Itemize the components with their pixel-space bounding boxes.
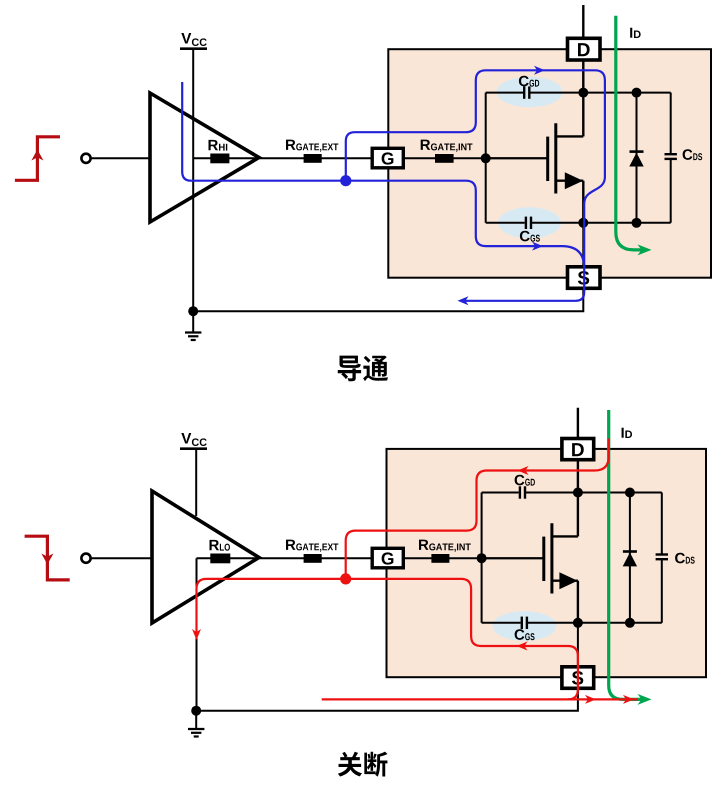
Vcc rail bar bbox=[180, 47, 207, 50]
Vcc label (bottom) bbox=[181, 433, 206, 446]
capacitor CGS plates (bottom) bbox=[521, 617, 523, 629]
capacitor CDS (top) bbox=[670, 93, 672, 155]
resistor RGATE,EXT (bottom) bbox=[286, 540, 338, 552]
S terminal box (top) bbox=[568, 267, 601, 289]
red flow arrow on bottom return bbox=[585, 695, 596, 704]
Cgs highlight ellipse (bottom) bbox=[492, 611, 556, 641]
ground node (top) bbox=[188, 306, 198, 316]
red discharge path via CGS (bottom) bbox=[346, 579, 578, 700]
capacitor CGD plates bbox=[523, 86, 525, 98]
red flow arrow near green (bottom) bbox=[623, 695, 634, 704]
node: drain junction (bottom) bbox=[573, 488, 583, 498]
wire input to driver bbox=[91, 157, 150, 159]
Vcc rail bar (bottom) bbox=[180, 447, 207, 450]
CDS label (bottom) bbox=[675, 553, 695, 564]
capacitor CGS plates bbox=[525, 217, 527, 229]
blue gate-charge path: driver to split node bbox=[182, 82, 346, 181]
pull-down wire to ground (bottom) bbox=[196, 558, 198, 711]
source bus to right branch (bottom) bbox=[578, 622, 662, 624]
MOSFET Q2 gate bar bbox=[542, 537, 545, 581]
source bus to right branch (top) bbox=[583, 222, 670, 224]
red path to RLO/ground (bottom) bbox=[197, 579, 346, 634]
body diode (bottom) bbox=[629, 493, 631, 623]
CGS label bbox=[520, 231, 540, 242]
resistor RHI bbox=[209, 140, 228, 151]
D lead wire (bottom) bbox=[577, 408, 579, 493]
resistor RGATE,EXT bbox=[286, 140, 338, 152]
CGD label bbox=[519, 76, 539, 87]
MOSFET Q1 channel bar bbox=[554, 123, 557, 193]
blue path via CGD (top) bbox=[346, 70, 605, 300]
blue path via CGS (top) bbox=[346, 181, 584, 268]
ground symbol (top) bbox=[192, 311, 194, 332]
MOSFET package box (bottom) bbox=[387, 449, 707, 677]
input step-down signal bbox=[25, 536, 70, 580]
MOSFET Q1 drain stub bbox=[556, 135, 584, 137]
drain bus to right branch (top) bbox=[583, 92, 670, 94]
internal left rail (gate) bbox=[485, 93, 487, 223]
CGS label (bottom) bbox=[515, 629, 535, 640]
body diode (top) bbox=[636, 93, 638, 223]
input terminal circle (bottom) bbox=[81, 554, 90, 563]
G terminal box (bottom) bbox=[372, 548, 403, 568]
node: gate junction (bottom) bbox=[477, 553, 487, 563]
internal left rail (bottom) bbox=[481, 493, 483, 623]
driver output wire through Rhi bbox=[193, 157, 372, 159]
MOSFET Q2 channel bar bbox=[550, 523, 553, 593]
caption: turn-off bbox=[338, 752, 388, 777]
CDS label (top) bbox=[683, 149, 703, 160]
drain bus to right branch (bottom) bbox=[578, 492, 662, 494]
D lead wire bbox=[582, 5, 584, 93]
MOSFET package box (top) bbox=[388, 49, 711, 278]
MOSFET Q2 drain stub bbox=[552, 535, 578, 537]
Cgd wire (top) bbox=[486, 92, 523, 94]
resistor RLO bbox=[210, 540, 230, 551]
Cgs highlight ellipse (top) bbox=[498, 207, 561, 238]
caption: turn-on bbox=[338, 356, 388, 382]
green arrow (bottom) bbox=[638, 694, 652, 705]
input step-up signal bbox=[15, 137, 60, 181]
driver buffer triangle (top) bbox=[150, 93, 259, 222]
node: source junction (top) bbox=[578, 218, 588, 228]
node: drain junction (top) bbox=[578, 88, 588, 98]
Cgs wire (top) bbox=[486, 222, 525, 224]
red split node (bottom) bbox=[340, 573, 351, 584]
CGD label (bottom) bbox=[515, 475, 535, 486]
wire G box to gate node bbox=[403, 157, 547, 159]
red discharge path via CGD (bottom) bbox=[346, 439, 609, 579]
node: diode top (top) bbox=[632, 88, 642, 98]
S terminal box (bottom) bbox=[562, 667, 594, 689]
driver buffer triangle (bottom) bbox=[152, 491, 259, 623]
MOSFET Q1 gate bar bbox=[546, 137, 549, 181]
gate wire to MOSFET (bottom) bbox=[482, 557, 544, 559]
ground symbol (bottom) bbox=[195, 711, 197, 729]
gate wire to MOSFET bbox=[486, 157, 548, 159]
green Id current line (bottom) bbox=[609, 410, 642, 699]
driver output wire through Rlo bbox=[197, 557, 373, 559]
Cgd highlight ellipse (top) bbox=[497, 77, 563, 107]
G terminal box bbox=[372, 148, 403, 168]
green Id current line (top) bbox=[616, 16, 642, 250]
wire input to driver (bottom) bbox=[91, 557, 152, 559]
blue split node bbox=[340, 175, 351, 186]
MOSFET Q1 source stub + arrow bbox=[556, 179, 584, 181]
node: source junction (bottom) bbox=[573, 618, 583, 628]
red source/ground return line (bottom) bbox=[322, 698, 638, 700]
D terminal box (bottom) bbox=[562, 439, 594, 460]
Vcc label bbox=[181, 33, 206, 46]
wire G box to gate node (bottom) bbox=[403, 557, 544, 559]
Id label (bottom) bbox=[622, 428, 632, 438]
capacitor CGD plates (bottom) bbox=[519, 486, 521, 498]
Vcc vertical wire down to ground node bbox=[192, 49, 194, 312]
resistor RGATE,INT bbox=[421, 140, 473, 152]
MOSFET Q2 source stub + arrow bbox=[552, 580, 578, 582]
Vcc stub wire (bottom) bbox=[195, 449, 197, 516]
Cgd wire (bottom) bbox=[482, 492, 519, 494]
ground node (bottom) bbox=[191, 706, 201, 716]
node: diode top (bottom) bbox=[625, 488, 635, 498]
node: diode bottom (bottom) bbox=[625, 618, 635, 628]
resistor RGATE,INT (bottom) bbox=[419, 540, 471, 552]
node: gate junction (top) bbox=[481, 153, 491, 163]
Id label (top) bbox=[630, 28, 640, 38]
source return wire (top) bbox=[193, 223, 583, 311]
capacitor CDS (bottom) bbox=[661, 493, 663, 555]
node: diode bottom (top) bbox=[632, 218, 642, 228]
input terminal circle bbox=[81, 154, 90, 163]
Cgs wire (bottom) bbox=[482, 622, 521, 624]
source return wire (bottom) bbox=[196, 623, 578, 711]
D terminal box (top) bbox=[568, 38, 601, 60]
